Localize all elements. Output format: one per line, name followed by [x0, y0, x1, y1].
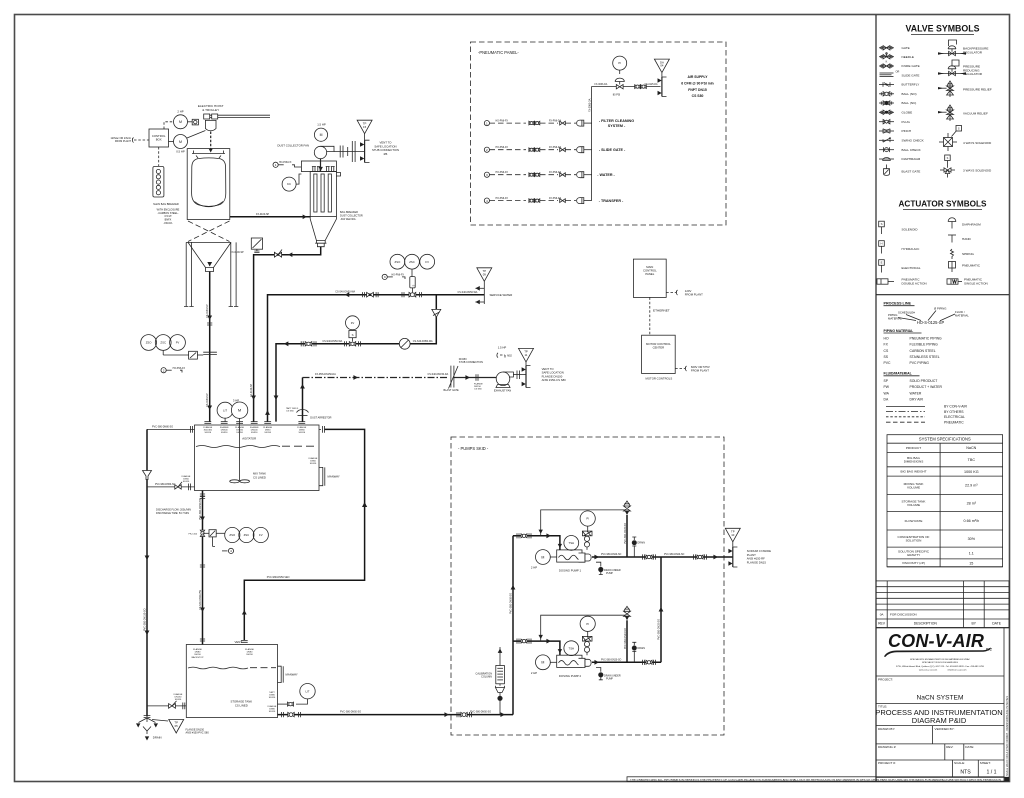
svg-text:LIT: LIT [305, 689, 309, 693]
svg-text:PVC-S80-DN50-VEN: PVC-S80-DN50-VEN [267, 576, 290, 579]
pump 1 TSH [564, 536, 579, 551]
svg-text:DUST COLLECTOR: DUST COLLECTOR [340, 215, 363, 218]
svg-text:M: M [179, 140, 182, 144]
svg-text:PVC-S80-DN150-SO: PVC-S80-DN150-SO [144, 608, 147, 631]
svg-text:FLOW RATE: FLOW RATE [905, 519, 923, 523]
svg-text:HO-PN6-FX: HO-PN6-FX [496, 121, 509, 123]
svg-text:CON-V-AIR: CON-V-AIR [888, 631, 984, 651]
svg-text:PVC-S80-DN20-SO: PVC-S80-DN20-SO [657, 619, 660, 640]
Y strainer on drop [432, 309, 441, 317]
pump 2 relief valve [624, 606, 631, 662]
service water auto valve [409, 277, 416, 297]
svg-text:PVC-S80-DN50-SO: PVC-S80-DN50-SO [155, 484, 176, 486]
svg-text:PNEUMATIC: PNEUMATIC [944, 420, 964, 424]
svg-text:PVC-S80-DN20-SO: PVC-S80-DN20-SO [624, 628, 627, 649]
svg-text:09: 09 [483, 272, 487, 276]
svg-text:PVC-S80-DN50-PW: PVC-S80-DN50-PW [199, 498, 202, 520]
main drain outlet [136, 716, 162, 741]
pneumatic tag 4 [213, 537, 234, 554]
pump 1 discharge piping [592, 554, 661, 559]
3 ways solenoid legend [940, 155, 992, 178]
trolley motor M2 0.5HP [169, 131, 206, 154]
svg-text:DUST COLLECTOR FAN: DUST COLLECTOR FAN [277, 144, 309, 148]
svg-text:SINGLE ACTION: SINGLE ACTION [964, 282, 988, 286]
svg-text:K: K [886, 61, 888, 64]
svg-text:HO-PN6-FX: HO-PN6-FX [173, 368, 186, 370]
svg-text:PVC PIPING: PVC PIPING [910, 361, 930, 365]
svg-text:KNIFE GATE: KNIFE GATE [902, 64, 920, 68]
dosing pump 2 motor [531, 655, 557, 675]
svg-text:3 WAYS SOLENOID: 3 WAYS SOLENOID [963, 169, 992, 173]
svg-text:DATE:: DATE: [965, 745, 974, 749]
dust collector cone [310, 217, 336, 247]
svg-text:FV: FV [259, 533, 263, 537]
svg-text:FLANGE: FLANGE [268, 705, 277, 708]
svg-text:PROJECT:: PROJECT: [878, 677, 893, 681]
pressure reducing regulator legend [938, 60, 983, 76]
plant stub connection [728, 547, 737, 567]
svg-text:SS316: SS316 [251, 432, 258, 434]
svg-text:FV: FV [176, 341, 180, 345]
svg-text:MATERIAL: MATERIAL [955, 313, 969, 317]
svg-text:4: 4 [486, 199, 488, 203]
svg-text:TSH: TSH [568, 541, 574, 545]
svg-text:& TROLLEY: & TROLLEY [202, 108, 219, 112]
svg-text:FLUID/MATERIAL: FLUID/MATERIAL [884, 372, 912, 376]
svg-text:4 WAYS SOLENOID: 4 WAYS SOLENOID [963, 141, 992, 145]
svg-text:FLANGE: FLANGE [174, 693, 183, 696]
disclaimer strip [627, 777, 1009, 782]
dosing pump 1 motor [531, 550, 557, 570]
svg-text:ZSC: ZSC [160, 341, 166, 345]
svg-text:BACKSTOP: BACKSTOP [192, 656, 204, 659]
svg-text:FX: FX [884, 343, 889, 347]
svg-text:- FILTER CLEANING: - FILTER CLEANING [599, 119, 634, 123]
4 ways solenoid legend [939, 126, 992, 152]
pump feed riser [470, 536, 515, 715]
discharge auto valve [189, 530, 217, 537]
actuator legend PNEUMATIC [949, 262, 981, 273]
pressure relief legend [938, 81, 992, 97]
svg-text:FX-0063-DA: FX-0063-DA [595, 83, 608, 86]
discharge slide gate [189, 351, 217, 359]
svg-text:FLEXIBLE PIPING: FLEXIBLE PIPING [910, 343, 939, 347]
bag breaker dust collector body [301, 161, 340, 217]
svg-text:SS316: SS316 [269, 711, 276, 713]
svg-text:BOX: BOX [156, 138, 162, 142]
svg-text:SHEET:: SHEET: [980, 761, 991, 765]
fan exhaust flex duct [334, 141, 365, 162]
svg-text:Ø PIPING: Ø PIPING [934, 307, 946, 311]
svg-text:PIPING MATERIAL: PIPING MATERIAL [884, 329, 914, 333]
svg-text:FLANGE: FLANGE [250, 426, 259, 429]
svg-text:S: S [352, 333, 354, 337]
actuator legend PNEUMATIC SINGLE ACTION [947, 278, 988, 286]
svg-text:SPECIALISTE EN MANUTENTION DE: SPECIALISTE EN MANUTENTION DE MATIÈRES E… [910, 658, 970, 661]
svg-text:FLANGE: FLANGE [297, 426, 306, 429]
svg-text:CS LINED: CS LINED [253, 475, 266, 479]
svg-text:SOLID PRODUCT: SOLID PRODUCT [910, 379, 938, 383]
svg-text:VACUUM RELIEF: VACUUM RELIEF [963, 112, 988, 116]
pump 1 drain valve [632, 537, 645, 557]
svg-text:DRAIN: DRAIN [638, 542, 646, 545]
svg-text:REV:: REV: [946, 745, 953, 749]
suction duct from bag breaker to collector [230, 213, 310, 219]
bag massager dashed X [186, 221, 231, 242]
svg-text:1.1: 1.1 [969, 551, 974, 555]
120V from plant note [666, 289, 703, 297]
svg-text:VOLUME: VOLUME [907, 485, 920, 489]
svg-text:S: S [411, 285, 415, 287]
svg-text:SPRING: SPRING [962, 252, 974, 256]
svg-text:PVC-S80-DN80-SO: PVC-S80-DN80-SO [152, 426, 173, 429]
svg-text:DRY AIR: DRY AIR [910, 398, 924, 402]
svg-text:SCALE:: SCALE: [954, 761, 965, 765]
pneumatic branch 2 [484, 146, 626, 153]
storage tank fill nozzle [192, 648, 204, 659]
exhaust header dash-dot pipe [303, 373, 450, 380]
svg-text:DRAWN BY:: DRAWN BY: [878, 727, 895, 731]
pump 1 PI gauge [580, 511, 595, 550]
svg-text:PVC: PVC [884, 361, 892, 365]
svg-text:DATE: DATE [992, 622, 1002, 626]
svg-text:WATER: WATER [910, 391, 922, 395]
svg-text:LIT: LIT [223, 408, 227, 412]
svg-text:05: 05 [175, 724, 179, 728]
pump 2 drain under pump [596, 668, 621, 681]
dosing pump 1 body [557, 550, 591, 573]
svg-text:BLAST GATE: BLAST GATE [902, 170, 921, 174]
calibration column [476, 647, 505, 715]
svg-text:BIG BAG WEIGHT: BIG BAG WEIGHT [901, 470, 927, 474]
svg-text:ANSI #150-PVC S80: ANSI #150-PVC S80 [186, 732, 210, 735]
svg-text:FROM PLANT: FROM PLANT [691, 369, 709, 373]
svg-text:3: 3 [486, 173, 488, 177]
svg-text:CS LINED: CS LINED [235, 704, 248, 708]
discharge to plant [661, 554, 733, 560]
storage tank outlet to pumps [268, 705, 513, 717]
pneumatic tag 1 to collector [273, 162, 301, 167]
svg-text:SS316: SS316 [175, 699, 182, 701]
svg-text:DOSING PUMP 2: DOSING PUMP 2 [559, 674, 582, 678]
svg-text:MOTOR CONTROLS: MOTOR CONTROLS [646, 377, 673, 381]
svg-text:SP: SP [884, 379, 889, 383]
svg-text:NaCN BAG BREAKER: NaCN BAG BREAKER [153, 203, 179, 206]
svg-text:04: 04 [660, 64, 664, 68]
service water check valve [367, 292, 374, 297]
water filter [399, 338, 433, 349]
svg-text:EXHAUST FAN: EXHAUST FAN [494, 389, 512, 392]
svg-text:ETHERNET: ETHERNET [653, 309, 670, 313]
svg-text:SYSTEM SPECIFICATIONS: SYSTEM SPECIFICATIONS [919, 437, 971, 442]
svg-text:M: M [320, 133, 323, 137]
svg-text:FOR DISCUSSION: FOR DISCUSSION [890, 613, 917, 617]
dust arrestor riser [286, 378, 332, 422]
svg-text:1 / 1: 1 / 1 [986, 770, 996, 776]
service water main pipe [265, 291, 484, 422]
valve position instruments ZSO ZSC FV [390, 254, 435, 276]
pump 2 PI gauge [580, 616, 595, 655]
actuator legend HYDRAULIC [879, 241, 920, 254]
drop pipe valve [274, 250, 282, 258]
svg-text:ZSO: ZSO [395, 260, 402, 264]
pump 2 suction piping [513, 639, 562, 656]
svg-text:PRESSURE RELIEF: PRESSURE RELIEF [963, 88, 992, 92]
actuator legend DIAPHRAGM [948, 218, 981, 229]
svg-text:HAND: HAND [962, 237, 972, 241]
svg-text:TAPT DN3.5: TAPT DN3.5 [286, 407, 299, 410]
svg-text:CS S80: CS S80 [286, 411, 294, 413]
svg-text:NEEDLE: NEEDLE [902, 55, 914, 59]
collector drop pipe to mix tank [231, 247, 321, 422]
svg-text:PLUG: PLUG [902, 120, 911, 124]
svg-text:Ø6: Ø6 [384, 152, 388, 156]
svg-text:HO-PN6-FX: HO-PN6-FX [392, 274, 405, 276]
air supply note [681, 75, 714, 98]
svg-text:1: 1 [486, 121, 488, 125]
svg-text:SCHEDULE#: SCHEDULE# [898, 311, 915, 315]
bag breaker discharge pipe [206, 262, 212, 422]
svg-text:2 HP: 2 HP [531, 671, 537, 675]
svg-text:DIAGRAM P&ID: DIAGRAM P&ID [912, 716, 967, 725]
svg-text:SS316: SS316 [205, 432, 212, 434]
panel header pipe [588, 87, 592, 201]
svg-text:PR-C100: PR-C100 [189, 533, 198, 535]
svg-text:- TRANSFER -: - TRANSFER - [599, 199, 624, 203]
air supply pipe [593, 73, 662, 87]
svg-text:DIAPHRAGM: DIAPHRAGM [962, 223, 981, 227]
svg-text:STAINLESS STEEL: STAINLESS STEEL [910, 355, 940, 359]
CON-V-AIR logo [884, 631, 993, 672]
power from plant note [110, 137, 149, 143]
vessel hopper cone [188, 242, 231, 271]
svg-text:PNEUMATIC: PNEUMATIC [962, 263, 981, 267]
pneumatic tag 3 [382, 274, 405, 279]
svg-text:PROJECT #:: PROJECT #: [878, 761, 896, 765]
drain flag TP-05 [152, 720, 209, 735]
svg-text:2: 2 [163, 368, 165, 372]
svg-text:CS-S40-DN50-WA: CS-S40-DN50-WA [413, 340, 433, 343]
discharge valve instruments ZSO ZSC FV [216, 527, 268, 542]
pump 2 recirculation line [539, 615, 628, 641]
revision table [876, 581, 1009, 628]
svg-text:HO: HO [884, 336, 889, 340]
svg-text:FX-0100-SP: FX-0100-SP [231, 251, 245, 254]
svg-text:SS316: SS316 [310, 463, 317, 465]
svg-text:REV: REV [878, 622, 886, 626]
svg-text:ZSO: ZSO [146, 341, 153, 345]
svg-text:DA: DA [884, 398, 889, 402]
svg-text:PRODUCT + WATER: PRODUCT + WATER [910, 385, 943, 389]
svg-text:CS-S40-DN50-WA: CS-S40-DN50-WA [335, 291, 355, 294]
air pressure regulator [613, 78, 625, 96]
svg-text:- SLIDE GATE -: - SLIDE GATE - [599, 148, 626, 152]
dust collector fan motor [314, 123, 327, 142]
svg-text:DIMENSIONS: DIMENSIONS [904, 460, 924, 464]
water branch valves [301, 340, 360, 347]
svg-text:NTS: NTS [960, 770, 971, 776]
svg-text:M: M [238, 408, 241, 413]
pumps skid dashed enclosure [451, 437, 724, 735]
vacuum relief legend [938, 105, 988, 121]
svg-text:PW: PW [884, 385, 890, 389]
svg-text:SS316: SS316 [221, 432, 228, 434]
hoist motor M1 2HP [174, 109, 199, 129]
dust collector label [340, 211, 363, 221]
svg-text:CS-0150-SP: CS-0150-SP [206, 393, 209, 407]
motor control center [642, 335, 676, 381]
svg-text:VISCOSITY (cP): VISCOSITY (cP) [902, 561, 925, 565]
backpressure regulator legend [938, 40, 988, 56]
svg-text:SLIDE GATE: SLIDE GATE [902, 73, 920, 77]
svg-text:SCALE VALID FOR A 17X22 FORMAT: SCALE VALID FOR A 17X22 FORMAT - DIMENSI… [1006, 696, 1009, 776]
svg-text:MANWAY: MANWAY [328, 475, 340, 479]
project field [878, 677, 963, 701]
svg-text:BY OTHERS: BY OTHERS [944, 410, 964, 414]
air supply isolation valves [635, 85, 647, 89]
svg-text:NaCN SYSTEM: NaCN SYSTEM [917, 695, 964, 702]
plant flag TP-10 [725, 528, 740, 547]
agitator motor and shaft [217, 398, 249, 483]
electric hoist and trolley [198, 104, 270, 152]
svg-text:MANWAY: MANWAY [286, 673, 298, 677]
svg-text:HO-PN6-FX: HO-PN6-FX [496, 172, 509, 174]
svg-text:BALL CHECK: BALL CHECK [902, 148, 922, 152]
svg-text:BAG BREAKER: BAG BREAKER [340, 211, 358, 214]
air supply flag DA-04 [654, 59, 669, 73]
svg-text:DOUBLE ACTION: DOUBLE ACTION [902, 282, 927, 286]
svg-text:M02: M02 [507, 354, 512, 357]
svg-text:SS316: SS316 [264, 432, 271, 434]
pump 1 relief valve [624, 501, 631, 557]
line style legend [886, 405, 967, 425]
svg-text:HO-PN6-FX: HO-PN6-FX [279, 162, 292, 164]
water solenoid valve FV [346, 316, 360, 346]
svg-text:28 m³: 28 m³ [967, 501, 977, 505]
pneumatic panel dashed enclosure [471, 42, 727, 225]
pneumatic branch 1 [484, 119, 634, 128]
svg-text:- PUMPS SKID -: - PUMPS SKID - [458, 446, 489, 451]
title block frame [876, 628, 1009, 778]
svg-text:AIR SUPPLY: AIR SUPPLY [687, 75, 708, 79]
actuator legend PNEUMATIC DOUBLE ACTION [877, 278, 927, 286]
svg-text:E: E [881, 261, 883, 265]
svg-text:CS S80: CS S80 [474, 388, 482, 390]
svg-text:FLANGE: FLANGE [309, 457, 318, 460]
svg-text:CENTER: CENTER [653, 346, 665, 350]
svg-text:PI: PI [586, 622, 589, 626]
vessel legs [184, 242, 238, 306]
svg-text:BLAST GATE: BLAST GATE [444, 389, 460, 392]
process line legend [884, 302, 970, 326]
svg-text:info@con-v-air.com: info@con-v-air.com [948, 669, 967, 672]
discharge note [156, 509, 191, 516]
svg-text:AGITATOR: AGITATOR [242, 437, 256, 441]
pendant pushbutton station [153, 147, 164, 197]
svg-text:DISCHARGE TIME: 53.7 MIN: DISCHARGE TIME: 53.7 MIN [156, 512, 189, 515]
pumps common discharge riser [657, 557, 663, 662]
scale validity vertical note [1006, 696, 1009, 776]
svg-text:NaCN: NaCN [966, 446, 976, 450]
svg-text:SS316: SS316 [299, 432, 306, 434]
svg-text:PRODUCT: PRODUCT [906, 446, 921, 450]
svg-text:SERVICE WATER: SERVICE WATER [490, 293, 513, 297]
svg-text:-0SC03-: -0SC03- [163, 222, 172, 225]
svg-text:1.5 HP: 1.5 HP [498, 346, 507, 350]
svg-text:KC: KC [287, 182, 291, 186]
svg-text:FX-0100-SP: FX-0100-SP [250, 383, 253, 397]
svg-text:DESCRIPTION: DESCRIPTION [914, 622, 938, 626]
svg-text:OR: OR [896, 71, 900, 74]
blast gate [444, 358, 484, 392]
svg-text:SOLENOID: SOLENOID [902, 228, 919, 232]
svg-text:ANSI #150-CS S80: ANSI #150-CS S80 [542, 378, 567, 382]
svg-text:FX-0063-DA: FX-0063-DA [588, 98, 591, 112]
svg-text:80 PSI: 80 PSI [613, 94, 621, 97]
sodium cyanide plant note [747, 549, 771, 564]
svg-text:ELECTRICAL: ELECTRICAL [944, 415, 965, 419]
air supply stub [658, 77, 667, 97]
svg-text:GATE: GATE [902, 46, 910, 50]
svg-text:FROM PLANT: FROM PLANT [685, 293, 703, 297]
svg-text:SS316: SS316 [246, 654, 253, 656]
svg-text:SWING CHECK: SWING CHECK [902, 139, 925, 143]
main control panel [633, 259, 666, 297]
svg-text:CS S80: CS S80 [692, 94, 704, 98]
svg-text:FLANGE: FLANGE [182, 475, 191, 478]
svg-text:M: M [179, 120, 182, 124]
mix tank overflow left [147, 426, 195, 433]
svg-text:FLANGE: FLANGE [263, 426, 272, 429]
svg-text:STUB CONNECTION: STUB CONNECTION [459, 361, 483, 364]
svg-text:PI: PI [618, 61, 621, 65]
svg-text:ZSC: ZSC [409, 260, 415, 264]
svg-text:SYSTEM -: SYSTEM - [608, 124, 626, 128]
svg-text:ELECTRICAL: ELECTRICAL [902, 266, 921, 270]
svg-text:CS: CS [884, 349, 889, 353]
svg-text:FV: FV [425, 260, 429, 264]
exhaust pipe to fan [454, 374, 496, 390]
svg-text:CS-S40-DN50-PW: CS-S40-DN50-PW [199, 589, 202, 610]
storage tank vent nozzle [245, 648, 254, 656]
water branch drop pipe [274, 295, 437, 422]
pneumatic branch 4 [484, 197, 624, 204]
svg-text:BY: BY [972, 622, 977, 626]
svg-text:DIAPHRAGM: DIAPHRAGM [902, 157, 921, 161]
pneumatic branch 3 [484, 171, 615, 178]
svg-text:PVC-S80-DN50-SO: PVC-S80-DN50-SO [470, 710, 491, 713]
svg-text:PANEL: PANEL [645, 272, 654, 276]
svg-text:PROCESS LINE: PROCESS LINE [884, 302, 912, 306]
svg-text:FNPT DN15: FNPT DN15 [688, 88, 707, 92]
mix tank manway [309, 457, 340, 486]
svg-text:22.9 m³: 22.9 m³ [965, 484, 978, 488]
pump 1 drain under pump [596, 562, 621, 575]
svg-text:15: 15 [969, 561, 973, 565]
svg-text:FLANGE: FLANGE [220, 426, 229, 429]
svg-text:FLANGE DN15: FLANGE DN15 [747, 560, 767, 564]
svg-text:PVC-S80-DN20-SO: PVC-S80-DN20-SO [601, 554, 622, 556]
svg-text:DRAIN: DRAIN [153, 735, 162, 739]
svg-text:COLUMN: COLUMN [481, 676, 492, 679]
svg-text:10: 10 [731, 533, 735, 537]
svg-text:ZSO: ZSO [229, 533, 236, 537]
svg-text:DRAWING #:: DRAWING #: [878, 745, 896, 749]
svg-text:DOSING PUMP 1: DOSING PUMP 1 [559, 569, 582, 573]
svg-text:SOLUTION: SOLUTION [906, 539, 922, 543]
storage tank level transmitter LIT [269, 684, 315, 707]
svg-text:0.66 m³/h: 0.66 m³/h [964, 519, 980, 523]
